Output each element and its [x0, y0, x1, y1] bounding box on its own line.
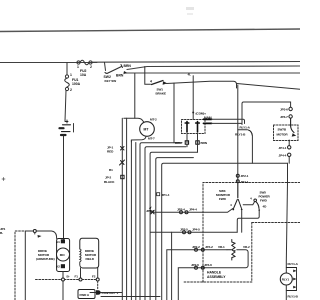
label MAIN: [204, 116, 212, 120]
wire bundle v8 corner: [156, 158, 194, 300]
label SW2 KEY SW: [104, 75, 117, 83]
wire terminal right drop: [187, 134, 198, 153]
svg-text:B1: B1: [109, 168, 113, 172]
wire right diag exit: [237, 84, 300, 90]
wire node to motor: [36, 231, 56, 239]
label JP4-3 X mark: [152, 209, 155, 213]
terminal A1: [61, 239, 65, 243]
svg-text:4: 4: [150, 80, 152, 84]
drive motor armature dashed enclosure: [15, 231, 62, 300]
switch SW3: [237, 183, 239, 198]
svg-text:RLY1-A: RLY1-A: [240, 125, 251, 129]
value label FU1 100A: [72, 78, 81, 86]
svg-text:FIELD: FIELD: [86, 257, 95, 261]
wire drop to FU1: [66, 63, 68, 75]
label left edge JP: [0, 227, 6, 235]
wire motor to A2 node: [62, 272, 64, 300]
svg-text:RLY1-B: RLY1-B: [235, 133, 246, 137]
wire node left drop: [25, 231, 35, 300]
wire contact out: [90, 293, 160, 297]
connector pair JP2-4: [180, 211, 189, 214]
label JP2-7: [241, 174, 249, 184]
svg-text:RLY1-B: RLY1-B: [288, 295, 299, 299]
label JP1-4: [157, 193, 170, 197]
svg-text:JP2-2: JP2-2: [192, 245, 200, 249]
wire bundle v9 corner to RLY line: [162, 163, 288, 300]
contactor FWD dashed box: [182, 120, 206, 134]
svg-text:RED: RED: [107, 150, 114, 154]
label row2: [180, 227, 200, 231]
switch SW7 blade: [291, 118, 295, 136]
label FU1 pins: [70, 73, 72, 92]
svg-text:JP4-1: JP4-1: [279, 146, 287, 150]
svg-text:SW7B: SW7B: [278, 128, 287, 132]
svg-text:MOTOR: MOTOR: [277, 133, 289, 137]
svg-text:A1: A1: [56, 240, 60, 244]
wire bundle v12 corner JP1 row2: [178, 268, 194, 300]
wire SW5 bottom: [237, 211, 259, 232]
label armature text: [36, 249, 55, 261]
node A2 bottom: [62, 278, 65, 281]
node F1: [79, 278, 82, 281]
wire SW7 to JP4 pins: [288, 141, 290, 146]
svg-text:A2: A2: [56, 265, 60, 269]
svg-text:RLY1: RLY1: [282, 278, 290, 282]
connector pair row4: [195, 266, 205, 269]
label SW3 MONITOR FWD: [216, 189, 231, 201]
svg-text:JP4-6: JP4-6: [204, 263, 212, 267]
handle assembly dashed box: [184, 183, 300, 283]
switch SW2 key switch: [105, 63, 123, 74]
svg-text:RLY1-A: RLY1-A: [288, 262, 299, 266]
svg-text:2: 2: [90, 65, 92, 69]
connector JP3-7: [289, 115, 292, 118]
wire field to F2: [97, 268, 99, 278]
svg-text:FWD: FWD: [219, 197, 227, 201]
svg-text:KEY SW: KEY SW: [105, 79, 117, 83]
mark left edge plus: [2, 178, 5, 181]
connector X row1: [149, 206, 154, 214]
switch SW5: [254, 199, 260, 211]
connector JP4-1: [288, 146, 291, 149]
drive motor field box: [80, 238, 99, 268]
terminal contactor left: [185, 141, 188, 144]
node armature in: [33, 230, 36, 233]
svg-text:(ARMATURE): (ARMATURE): [36, 257, 55, 261]
label BRN 2: [116, 74, 124, 78]
terminal contactor right: [196, 141, 199, 144]
box FWD A: [78, 290, 95, 299]
svg-text:JP4-5: JP4-5: [192, 227, 200, 231]
wire bundle v4: [135, 143, 137, 300]
wire brake to right rail: [167, 81, 237, 88]
connector JP2-7 pins on v238: [236, 174, 239, 182]
wire MT bottom loop: [131, 136, 146, 142]
wire field to F1: [80, 268, 82, 278]
svg-text:BRAKE: BRAKE: [156, 92, 167, 96]
svg-text:100A: 100A: [72, 82, 81, 86]
connector JP3-6: [289, 107, 292, 110]
wire RLY1 bottom: [285, 285, 287, 300]
svg-text:2: 2: [70, 88, 72, 92]
svg-text:1: 1: [77, 65, 79, 69]
wire bus2 y66.5: [127, 66, 300, 70]
svg-text:MO: MO: [60, 253, 65, 257]
svg-text:B-: B-: [67, 275, 70, 279]
svg-text:JP3-7: JP3-7: [280, 115, 288, 119]
svg-text:BRN: BRN: [201, 141, 208, 145]
switch SW1 brake feed: [145, 67, 151, 85]
svg-text:10A: 10A: [80, 73, 87, 77]
wire F1-F2 dashed link: [65, 279, 97, 281]
wire terminal left drop: [186, 134, 188, 143]
wire bundle v7 corner: [150, 152, 198, 300]
fuse FU2: [77, 60, 92, 65]
svg-text:VR-2: VR-2: [243, 245, 250, 249]
wire right column v238: [237, 85, 239, 198]
node arrow: [38, 235, 42, 238]
wire bus3 y73.5: [124, 72, 300, 74]
label FU2 pins: [77, 65, 92, 69]
battery BT: [60, 120, 74, 135]
svg-text:HANDLE: HANDLE: [207, 271, 222, 275]
svg-text:FWD A: FWD A: [80, 293, 90, 297]
contact MAIN stack: [204, 119, 212, 123]
label SW5 POWER FWD: [259, 191, 271, 203]
svg-text:JP4-3: JP4-3: [146, 209, 154, 213]
wire U riser to JP3: [242, 102, 291, 125]
svg-text:JP-2: JP-2: [105, 176, 112, 180]
switch SW1 blade: [152, 81, 167, 85]
wire RLY main drop: [286, 163, 287, 273]
wire bundle v6 corner: [145, 147, 186, 300]
node F2: [96, 278, 99, 281]
svg-text:JP4-4: JP4-4: [189, 208, 197, 212]
page mark smudge: [186, 7, 194, 15]
wire JP2 row2: [151, 231, 238, 233]
wire brake drop to coil row: [173, 83, 175, 143]
svg-text:B-: B-: [0, 231, 3, 235]
wire bundle v5 corner: [140, 143, 182, 300]
wire MAIN row2: [212, 122, 243, 124]
wire bundle v1: [121, 118, 123, 300]
label JP2-4: [177, 208, 197, 212]
svg-text:F1: F1: [75, 275, 79, 279]
wire JP2 row3 VR: [194, 249, 227, 251]
meter MT: [140, 122, 155, 137]
connector joint B1: [120, 160, 125, 165]
relay RLY1: [280, 273, 292, 285]
svg-text:JP4-2: JP4-2: [205, 245, 213, 249]
wire RLY1-A contact drop: [251, 136, 253, 163]
wire MT top tee: [124, 118, 144, 122]
wire FU1 to battery: [65, 91, 66, 122]
svg-text:JP4-4: JP4-4: [279, 153, 287, 157]
label HANDLE ASSEMBLY: [207, 271, 226, 280]
svg-text:JP4-1: JP4-1: [241, 180, 249, 184]
svg-text:JP2-4: JP2-4: [177, 208, 185, 212]
wire coil feed drop: [192, 76, 194, 119]
value label FU2 10A: [80, 69, 87, 77]
wire bundle v3: [130, 140, 132, 300]
svg-text:FWD: FWD: [260, 199, 268, 203]
connector X JP-1 RED: [121, 147, 125, 151]
label DRIVE MOTOR FIELD: [85, 249, 97, 261]
terminal A2: [61, 264, 65, 268]
node (COM)+: [192, 112, 194, 114]
wire F2 drop dashed: [97, 281, 99, 290]
svg-text:VR-1: VR-1: [218, 245, 225, 249]
wire battery to motor: [63, 136, 65, 239]
svg-text:4: 4: [250, 197, 252, 201]
svg-text:BLACK: BLACK: [104, 180, 115, 184]
connector pair row2: [183, 231, 192, 234]
wire top rail: [0, 29, 300, 32]
label SW1 BRAKE: [156, 88, 167, 96]
switch SW7 dashed box: [274, 125, 299, 141]
label BRN: [124, 64, 132, 68]
connector JP4-4: [288, 153, 291, 156]
svg-text:JP2-5: JP2-5: [180, 227, 188, 231]
svg-text:MT: MT: [144, 128, 150, 132]
svg-text:MT-7: MT-7: [148, 137, 155, 141]
svg-text:JP2-1: JP2-1: [241, 174, 249, 178]
resistor VR pot: [227, 240, 237, 261]
wire VR loop: [205, 250, 248, 268]
svg-text:BRN: BRN: [116, 74, 124, 78]
relay RLY1 contact bracket: [286, 268, 296, 291]
connector pair row3: [195, 248, 205, 251]
svg-text:BRN: BRN: [175, 141, 182, 145]
wire SW5 common stub: [243, 202, 254, 205]
node arrow bus3 start: [124, 71, 128, 74]
wire bundle v11: [171, 232, 173, 300]
contactor coil bars: [185, 122, 199, 133]
wire JP2 row1: [151, 209, 233, 213]
fuse FU1: [65, 75, 70, 91]
svg-text:MAIN: MAIN: [204, 116, 212, 120]
svg-text:4: 4: [230, 203, 232, 207]
svg-text:4L: 4L: [188, 73, 192, 77]
svg-text:F2: F2: [92, 275, 96, 279]
wire JP2 row4: [194, 267, 205, 269]
motor MO body: [57, 239, 70, 272]
svg-text:ASSEMBLY: ASSEMBLY: [207, 275, 226, 279]
switch RLY1-A contact: [238, 129, 248, 131]
wire bundle v10 corner JP1 row1: [167, 250, 194, 300]
svg-text:BRN: BRN: [124, 64, 132, 68]
svg-text:JP1-4: JP1-4: [162, 193, 170, 197]
wire bundle v2: [126, 118, 128, 300]
label CONTACT 1: [102, 291, 119, 295]
svg-text:JP3-6: JP3-6: [280, 108, 288, 112]
label row4: [191, 263, 212, 267]
svg-text:4D: 4D: [263, 205, 268, 209]
wire MAIN row1: [212, 119, 245, 123]
wire bus B+ y62: [0, 62, 300, 63]
connector D plug: [96, 290, 101, 295]
wire SW3 right terminal down: [241, 211, 243, 233]
connector square JP-2 BLACK: [121, 175, 124, 178]
wire MT feed drop from bus3: [134, 74, 136, 119]
svg-text:1: 1: [70, 73, 72, 77]
svg-text:MT-2: MT-2: [150, 118, 157, 122]
label row3: [192, 245, 213, 249]
svg-text:JP2-6: JP2-6: [191, 263, 199, 267]
node SW7 out: [288, 140, 290, 142]
wire JP4 down to y163: [288, 157, 290, 164]
